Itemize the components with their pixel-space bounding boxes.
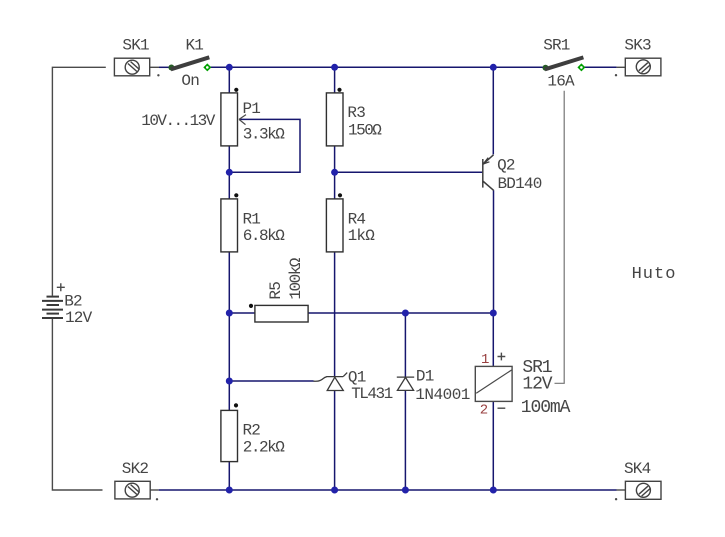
terminal SK1 pin mark: [157, 74, 159, 76]
wire bottom rail: [159, 489, 617, 491]
resistor R5: [249, 304, 308, 322]
wire P1 bottom to node A: [228, 146, 230, 173]
svg-text:6.8kΩ: 6.8kΩ: [243, 227, 285, 245]
svg-text:R4: R4: [348, 211, 366, 229]
wire R2 bottom to bottom rail: [228, 461, 230, 490]
wire SK4 left stub: [617, 489, 626, 491]
node bottom rail / D1: [402, 487, 409, 494]
svg-text:SK2: SK2: [122, 460, 149, 478]
svg-text:B2: B2: [64, 292, 82, 310]
svg-text:Huto: Huto: [632, 265, 677, 284]
svg-text:3.3kΩ: 3.3kΩ: [243, 125, 285, 143]
wire node A to R1 top: [228, 172, 230, 199]
svg-text:1: 1: [481, 352, 489, 368]
resistor R2: [221, 403, 238, 461]
relay contact SR1: [543, 57, 586, 71]
svg-text:Q1: Q1: [348, 369, 366, 387]
wire relay coil bottom to bottom rail: [492, 401, 494, 490]
wire Q2 base to node B: [335, 171, 483, 173]
svg-text:P1: P1: [243, 100, 261, 118]
resistor R1: [221, 193, 239, 252]
svg-text:16A: 16A: [547, 72, 575, 90]
wire SK2 right stub: [150, 489, 159, 491]
wire top rail to Q2 emitter: [492, 67, 494, 154]
wire SK1 right stub: [150, 66, 159, 68]
wire R5 row to R2 top through ref node: [228, 313, 230, 411]
node R5 row / Q2 collector / relay: [490, 310, 497, 317]
node bottom rail / relay: [490, 487, 497, 494]
terminal SK4: [625, 481, 661, 499]
wire node B to R4 top: [334, 172, 336, 199]
terminal SK3: [625, 58, 661, 76]
wire Q2 collector down to R5 row: [493, 190, 495, 313]
wire SR1 contact to SK3: [584, 66, 617, 68]
svg-text:BD140: BD140: [498, 175, 542, 193]
resistor R3: [326, 88, 343, 146]
battery plus sign: [57, 283, 65, 291]
wire top rail K1 to SR1 contact: [211, 66, 546, 68]
node R5 left / R1 bottom: [226, 310, 233, 317]
svg-text:12V: 12V: [65, 309, 93, 327]
node bottom rail / Q1: [331, 487, 338, 494]
node top rail / P1: [226, 64, 233, 71]
diode D1: [397, 377, 414, 390]
node bottom rail / R2: [226, 487, 233, 494]
shunt reference Q1 TL431: [314, 373, 348, 391]
node A P1 bottom / wiper / R1: [226, 169, 233, 176]
wire top rail to R3 top: [334, 67, 336, 93]
svg-text:R5: R5: [267, 282, 285, 300]
node top rail / Q2 emitter: [490, 64, 497, 71]
svg-text:D1: D1: [416, 368, 434, 386]
terminal SK4 pin mark: [615, 498, 617, 500]
svg-text:150Ω: 150Ω: [348, 121, 382, 139]
svg-text:SK3: SK3: [624, 37, 651, 55]
wire relay link line SR1 contact to coil (gray): [555, 91, 565, 384]
terminal SK3 pin mark: [615, 74, 617, 76]
potentiometer P1: [221, 88, 246, 146]
wire R3 bottom to node B: [334, 146, 336, 173]
terminal SK2: [115, 481, 150, 499]
node Q1 reference / R1-R2 divider: [226, 378, 233, 385]
wire R5 row to D1 cathode: [404, 313, 406, 377]
svg-text:TL431: TL431: [351, 385, 392, 403]
wire Q1 anode to bottom rail: [334, 391, 336, 491]
svg-text:K1: K1: [186, 37, 204, 55]
resistor R4: [326, 193, 343, 252]
svg-text:100mA: 100mA: [521, 398, 571, 418]
svg-text:100kΩ: 100kΩ: [287, 257, 305, 299]
relay minus sign: [498, 407, 506, 409]
wire D1 anode to bottom rail: [404, 390, 406, 490]
wire R5 row to relay coil top: [492, 313, 494, 366]
svg-text:1N4001: 1N4001: [415, 386, 470, 404]
relay plus sign: [498, 353, 506, 361]
wire P1 wiper loop: [229, 119, 300, 172]
svg-text:12V: 12V: [522, 375, 552, 395]
svg-text:2: 2: [480, 402, 488, 418]
wire left rail top (gray) from SK1 to battery: [52, 67, 105, 295]
wire top rail to P1 top: [228, 67, 230, 93]
svg-text:SK1: SK1: [122, 37, 149, 55]
node top rail / R3: [331, 64, 338, 71]
terminal SK1: [114, 58, 149, 76]
svg-text:SK4: SK4: [624, 460, 651, 478]
svg-text:On: On: [181, 72, 199, 90]
terminal SK2 pin mark: [156, 498, 158, 500]
svg-text:1kΩ: 1kΩ: [348, 227, 376, 245]
wire SK3 left stub: [617, 66, 626, 68]
wire Q1 reference: [229, 380, 313, 382]
svg-text:R3: R3: [347, 104, 365, 122]
svg-text:R2: R2: [243, 422, 261, 440]
wire R4 bottom to Q1 cathode: [334, 252, 336, 377]
wire left rail bottom (gray) from battery to SK2: [52, 319, 102, 490]
transistor Q2: [483, 155, 494, 191]
relay coil SR1: [475, 366, 512, 401]
svg-text:10V...13V: 10V...13V: [141, 112, 215, 130]
svg-text:R1: R1: [243, 211, 261, 229]
svg-text:2.2kΩ: 2.2kΩ: [243, 439, 285, 457]
node R5 row / D1: [402, 310, 409, 317]
svg-text:SR1: SR1: [543, 37, 570, 55]
wire R5 row left segment: [229, 312, 255, 314]
node B R3 / R4 / Q2 base: [331, 169, 338, 176]
battery B2: [42, 297, 63, 318]
wire R1 bottom to R5 row: [228, 252, 230, 313]
wire R5 row right segment: [308, 312, 493, 314]
svg-text:Q2: Q2: [497, 157, 515, 175]
wire SK1 to K1: [159, 66, 169, 68]
switch K1: [168, 57, 211, 71]
